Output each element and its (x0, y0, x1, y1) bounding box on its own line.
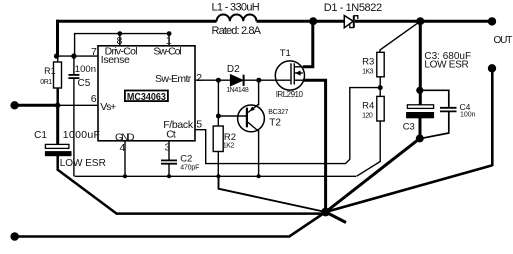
svg-text:BC327: BC327 (268, 109, 288, 116)
svg-text:Vs+: Vs+ (100, 101, 116, 113)
svg-text:C3: C3 (403, 122, 415, 133)
svg-text:470pF: 470pF (180, 165, 199, 172)
svg-text:R3: R3 (362, 57, 374, 68)
svg-text:2: 2 (196, 72, 202, 84)
svg-text:3: 3 (165, 141, 171, 153)
svg-text:D2: D2 (227, 64, 240, 75)
svg-text:Isense: Isense (101, 54, 130, 66)
svg-text:4: 4 (120, 142, 126, 154)
svg-text:C2: C2 (180, 153, 192, 164)
svg-text:1K2: 1K2 (223, 142, 235, 149)
svg-text:L1 - 330uH: L1 - 330uH (212, 2, 260, 14)
svg-text:LOW ESR: LOW ESR (60, 158, 106, 169)
svg-text:Ct: Ct (166, 129, 176, 141)
svg-text:C1: C1 (34, 130, 47, 141)
svg-text:1K3: 1K3 (362, 68, 374, 75)
svg-text:5: 5 (196, 119, 202, 131)
svg-text:6: 6 (91, 93, 97, 105)
svg-text:100n: 100n (75, 64, 96, 75)
svg-text:R1: R1 (44, 66, 56, 76)
svg-text:Rated: 2.8A: Rated: 2.8A (212, 25, 262, 37)
svg-text:D1 - 1N5822: D1 - 1N5822 (324, 2, 382, 14)
svg-text:1000uF: 1000uF (63, 129, 100, 141)
svg-text:IRL2910: IRL2910 (276, 90, 304, 99)
svg-text:MC34063: MC34063 (127, 92, 166, 103)
svg-text:8: 8 (117, 35, 123, 47)
svg-text:Sw-Emtr: Sw-Emtr (155, 73, 192, 85)
svg-text:R4: R4 (362, 101, 374, 112)
svg-text:1N4148: 1N4148 (226, 87, 249, 94)
svg-text:120: 120 (362, 113, 373, 120)
svg-text:C5: C5 (78, 78, 91, 89)
svg-text:T1: T1 (280, 48, 291, 59)
svg-text:LOW ESR: LOW ESR (424, 60, 468, 71)
svg-text:0R1: 0R1 (40, 79, 52, 86)
svg-text:Sw-Col: Sw-Col (153, 45, 181, 57)
svg-text:T2: T2 (269, 117, 281, 128)
svg-text:7: 7 (91, 46, 97, 58)
svg-text:OUT: OUT (494, 35, 513, 46)
svg-text:1: 1 (166, 35, 172, 47)
svg-text:100n: 100n (460, 111, 476, 118)
svg-text:C4: C4 (460, 102, 471, 112)
